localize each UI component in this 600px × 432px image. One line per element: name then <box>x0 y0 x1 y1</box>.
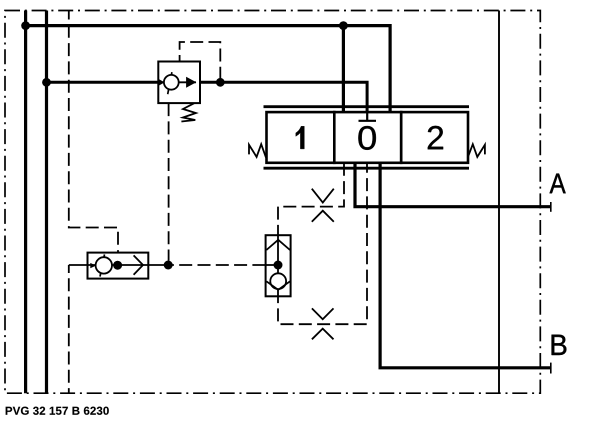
node: LS junction dot <box>164 261 173 270</box>
check valve (LS bridge) <box>266 235 291 296</box>
shuttle valve (LS) <box>88 253 169 279</box>
node: junction dot on tank vertical <box>42 78 51 87</box>
wire: dashed line from spool down to lower bridge and check valve bottom <box>278 163 367 324</box>
wire: dashed bridge from spool port through shock valve to check valve top <box>278 163 344 235</box>
label: position 1 <box>296 126 305 149</box>
wire: supply line to pressure relief valve <box>47 81 159 84</box>
wire: work port B line <box>380 163 551 368</box>
label: port B <box>552 335 567 355</box>
label: position 0 <box>358 126 376 150</box>
port B end tick <box>550 363 552 374</box>
wire: LS dashed vertical lower run to bottom border <box>68 265 70 393</box>
spring left of spool valve <box>249 144 266 157</box>
port A end tick <box>550 202 552 212</box>
wire: top supply line from P to spool valve (with corner down) <box>26 26 391 113</box>
wire: tank line T vertical (left inner) <box>45 11 48 394</box>
wire: dashed pilot loop over relief valve <box>180 42 221 78</box>
wire: work port A line <box>355 163 551 207</box>
wire: dashed LS link to check valve <box>171 264 266 266</box>
spool valve position box 0 <box>334 112 401 163</box>
wire: LS dashed vertical with pilot branch to shuttle valve <box>69 11 118 253</box>
wire: dashed LS line from relief valve down to LS node <box>168 103 170 261</box>
node: junction dot P / top line <box>21 21 30 30</box>
shock valve A (upper X symbol) <box>312 189 334 222</box>
label: port A <box>550 174 566 194</box>
label: part number <box>6 407 13 415</box>
wire: branch vertical from top line to spool valve port <box>342 26 345 113</box>
node: junction dot pilot line <box>216 78 225 87</box>
spool valve position box 2 <box>401 112 468 163</box>
wire: pump line P vertical (left outer) <box>24 11 27 394</box>
shock valve B (lower X symbol) <box>312 308 334 339</box>
node: junction dot inside shuttle valve <box>113 261 122 270</box>
wire: LS line from dashed vertical to shuttle valve <box>69 264 88 266</box>
node: junction dot top line branch <box>339 21 348 30</box>
spool valve position box 1 <box>267 112 335 163</box>
spool valve body rails <box>264 105 470 108</box>
wire: pilot line from relief valve to spool valve center (blocked port) <box>200 82 367 121</box>
blocked port T-symbol inside box 0 <box>359 112 377 121</box>
label: position 2 <box>428 126 443 149</box>
wire: section boundary thin vertical line <box>498 11 500 394</box>
spring of relief valve <box>181 103 196 121</box>
spring right of spool valve <box>468 144 485 157</box>
enclosure boundary (dash-dot frame of valve section) <box>5 11 540 394</box>
relief valve U1 (pilot pressure adjustment) <box>158 62 200 104</box>
